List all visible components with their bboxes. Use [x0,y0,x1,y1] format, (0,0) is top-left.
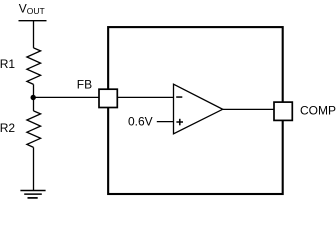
junction node dot [31,95,36,100]
wire node to FB pin [34,96,100,98]
wire FB pin to op-amp inverting input [117,96,173,98]
svg-text:VOUT: VOUT [19,2,45,16]
plus sign [176,119,183,126]
wire R2 to ground [33,147,35,190]
pin FB [99,89,117,107]
resistor R2 [27,111,41,147]
wire 0.6V to op-amp non-inverting input [157,121,174,123]
IC box U1 [108,27,283,194]
wire from VOUT bar to R1 [33,21,35,48]
op-amp U1 [174,84,223,134]
svg-text:0.6V: 0.6V [128,114,153,128]
svg-text:R1: R1 [0,57,15,71]
svg-text:R2: R2 [0,121,15,135]
pin COMP [274,102,292,120]
wire op-amp output to COMP pin [223,108,274,110]
wire node to R2 [33,98,35,111]
power rail VOUT bar [19,20,47,22]
ground [20,191,45,198]
svg-text:FB: FB [77,77,92,91]
svg-text:COMP: COMP [300,103,336,117]
resistor R1 [27,48,41,85]
wire R1 to node [33,84,35,97]
minus sign [176,96,182,98]
